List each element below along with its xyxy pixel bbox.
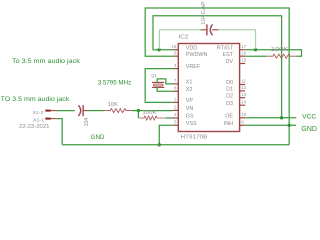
svg-text:X1-2: X1-2 [33, 110, 44, 116]
junction dot GND [288, 124, 291, 127]
resistor R? 100K (feedback) [138, 116, 166, 120]
wire X1-1 down to gnd rail [56, 119, 62, 145]
svg-text:D3: D3 [226, 101, 233, 107]
pin X1 (7) stub [173, 78, 192, 85]
junction dot VCC [280, 116, 283, 119]
pin D1 (12) stub [226, 85, 247, 92]
svg-text:14: 14 [241, 99, 246, 104]
svg-text:3.5795 MHz: 3.5795 MHz [98, 79, 132, 86]
svg-text:Q1: Q1 [151, 73, 157, 79]
svg-text:EST: EST [223, 52, 234, 58]
wire PWDWN net: pin6 left, up, across top, down to INH row [145, 8, 289, 145]
connector X1-2 pin stub [45, 110, 56, 112]
pin GS (3) stub [173, 112, 194, 119]
svg-text:RT/GT: RT/GT [217, 45, 234, 51]
junction dot VDD [157, 48, 160, 51]
crystal Q1 3.5795 MHz [152, 82, 164, 87]
svg-text:18: 18 [172, 44, 177, 49]
pin INH (9) stub [224, 120, 245, 127]
svg-text:OE: OE [225, 113, 233, 119]
resistor R? 10K [104, 109, 133, 113]
svg-text:13: 13 [241, 92, 246, 97]
svg-text:17: 17 [241, 44, 246, 49]
wire junction down to 100K resistor [137, 111, 139, 118]
wire VDD net: pin18 to junction to corner up [153, 16, 282, 118]
wire EST to resistor R1 [245, 55, 266, 57]
wire OE to VCC [245, 117, 296, 119]
svg-text:IC2: IC2 [179, 35, 189, 41]
pin VSS (5) stub [173, 120, 197, 127]
svg-text:10: 10 [241, 112, 246, 117]
pin VN (2) stub [173, 105, 193, 112]
svg-text:VDD: VDD [186, 45, 197, 51]
svg-text:GND: GND [301, 126, 317, 133]
svg-text:104CAP: 104CAP [201, 1, 207, 25]
svg-text:104: 104 [84, 117, 90, 126]
pin VREF (4) stub [173, 63, 201, 70]
wire RT/GT loop to EST resistor [245, 50, 301, 57]
capacitor C? 104 (input coupling) [78, 105, 87, 116]
svg-text:GND: GND [91, 134, 105, 141]
svg-text:VN: VN [186, 106, 194, 112]
pin EST (16) stub [223, 50, 247, 57]
svg-text:D1: D1 [226, 87, 233, 93]
wire crystal bottom to X2 [157, 87, 173, 91]
svg-text:11: 11 [241, 79, 246, 84]
pin VDD (18) stub [172, 44, 198, 51]
svg-text:15: 15 [241, 58, 246, 63]
wire crystal top to X1 [157, 79, 173, 84]
junction dot VSS on gnd rail [158, 143, 161, 146]
svg-text:TO 3.5 mm audio jack: TO 3.5 mm audio jack [1, 96, 70, 103]
wire INH to GND [245, 124, 296, 126]
pin VP (1) stub [173, 97, 193, 104]
svg-text:16: 16 [241, 50, 246, 55]
wire cap top right down to RT/GT (light) [255, 30, 257, 49]
svg-text:HT9170B: HT9170B [181, 135, 209, 141]
pin D2 (13) stub [226, 92, 247, 100]
wire X1-2 to capacitor C 104 [56, 110, 74, 112]
connector X1-1 pin stub [45, 118, 56, 120]
wire cap to resistor 10K [88, 110, 104, 112]
pin PWDWN (6) stub [173, 50, 208, 57]
svg-text:INH: INH [224, 121, 233, 127]
svg-text:DV: DV [226, 59, 234, 65]
svg-text:12: 12 [241, 85, 246, 90]
wire 10K to VN with junction [132, 110, 173, 112]
pin D3 (14) stub [226, 99, 247, 107]
pin RT/GT (17) stub [217, 44, 247, 51]
wire cap top to VDD junction (light) [158, 30, 160, 49]
svg-text:X1-1: X1-1 [33, 117, 44, 123]
capacitor C? 104CAP top [159, 24, 255, 35]
svg-text:VREF: VREF [186, 64, 201, 70]
wire VSS to bottom gnd rail [159, 125, 173, 145]
wire 100K to GS [166, 117, 173, 119]
pin X2 (8) stub [173, 86, 192, 93]
svg-text:VP: VP [186, 98, 194, 104]
IC2 HT9170B body [178, 44, 239, 132]
svg-text:VSS: VSS [186, 121, 197, 127]
svg-text:22-23-2021: 22-23-2021 [19, 124, 50, 130]
svg-text:D0: D0 [226, 80, 233, 86]
junction dot VN node [137, 109, 140, 112]
svg-text:VCC: VCC [302, 114, 317, 121]
junction dot RT/GT cap node [254, 48, 257, 51]
svg-text:100K: 100K [142, 110, 157, 116]
svg-text:X2: X2 [186, 87, 193, 93]
bottom gnd rail wire [62, 144, 289, 146]
svg-text:X1: X1 [186, 80, 193, 86]
svg-text:D2: D2 [226, 93, 233, 99]
wire VREF to VP [145, 69, 173, 103]
svg-text:100K: 100K [271, 47, 289, 53]
pin OE (10) stub [225, 112, 247, 120]
svg-text:GS: GS [186, 114, 194, 120]
pin DV (15) stub [226, 58, 247, 66]
pin D0 (11) stub [226, 79, 246, 86]
svg-text:To 3.5 mm audio jack: To 3.5 mm audio jack [12, 58, 81, 65]
svg-text:10K: 10K [108, 102, 119, 108]
resistor R? 100K (top right) [266, 54, 297, 58]
svg-text:PWDWN: PWDWN [186, 52, 208, 58]
